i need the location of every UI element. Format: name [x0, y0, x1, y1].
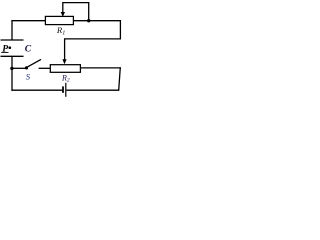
wire R2 right to right rail	[81, 67, 121, 69]
resistor R1 body	[45, 16, 73, 24]
wire R2 wiper horizontal	[65, 38, 121, 40]
rheostat R1 wiper arrowhead	[61, 12, 65, 17]
wire left of R1	[11, 20, 45, 22]
right rail lower vertical	[119, 67, 121, 90]
capacitor C top plate	[1, 39, 24, 41]
wire top loop horizontal (wiper to right rail)	[63, 2, 89, 4]
bottom rail left segment	[11, 89, 62, 91]
battery positive plate (tall)	[65, 83, 67, 97]
underline of P	[1, 51, 8, 53]
battery negative plate (short thick)	[62, 86, 64, 92]
switch S pivot dot	[25, 66, 28, 69]
resistor R2 body	[50, 65, 80, 73]
junction dot switch branch	[10, 67, 13, 70]
left rail lower vertical (capacitor to bottom rail)	[11, 56, 13, 91]
rheostat R2 wiper arrowhead	[62, 59, 66, 64]
background	[0, 0, 122, 99]
rheostat R2 wiper arrow stem	[64, 38, 66, 60]
left rail upper vertical (top wire to capacitor)	[11, 20, 13, 40]
svg-text:S: S	[26, 71, 31, 81]
rheostat R1 wiper arrow stem	[62, 2, 64, 13]
bottom rail right segment	[66, 89, 119, 91]
switch S blade	[27, 59, 41, 67]
wire top loop right vertical	[88, 2, 90, 21]
capacitor C bottom plate	[1, 55, 24, 57]
right rail upper vertical	[119, 20, 121, 39]
svg-text:C: C	[25, 44, 32, 55]
point P dot	[8, 46, 11, 49]
wire switch left	[12, 67, 26, 69]
wire switch right to R2	[39, 67, 51, 69]
junction dot on top wire	[87, 19, 90, 22]
wire right of R1 to right rail	[73, 20, 121, 22]
